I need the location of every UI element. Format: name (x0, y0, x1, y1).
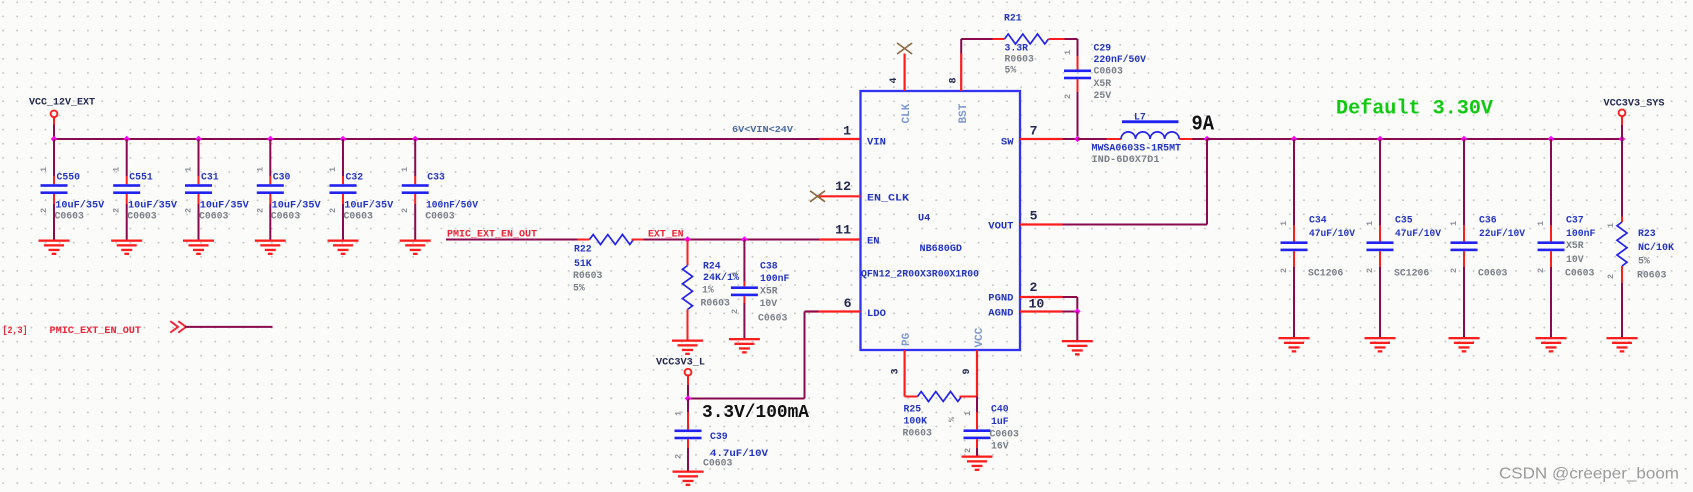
wire output down to VOUT (1206, 139, 1208, 225)
svg-text:PMIC_EXT_EN_OUT: PMIC_EXT_EN_OUT (447, 229, 537, 240)
junction C34 on output bus (1291, 136, 1298, 143)
C38 pin 1 stub (743, 281, 745, 286)
svg-text:VCC3V3_SYS: VCC3V3_SYS (1604, 99, 1665, 110)
capacitor C40 (964, 429, 991, 439)
svg-text:4: 4 (889, 77, 900, 83)
svg-text:PMIC_EXT_EN_OUT: PMIC_EXT_EN_OUT (50, 325, 142, 336)
junction C32 on VIN bus (340, 136, 347, 143)
C34 pin 1 stub (1293, 226, 1295, 242)
wire BST up (960, 39, 962, 54)
junction EXT_EN / R24 (684, 236, 691, 243)
svg-text:C550: C550 (57, 172, 81, 183)
svg-text:EXT_EN: EXT_EN (648, 229, 684, 240)
wire C33 to ground (414, 204, 416, 240)
junction PGND/AGND (1074, 308, 1081, 315)
capacitor C34 (1281, 241, 1308, 251)
svg-text:VCC: VCC (974, 327, 986, 347)
U4 pin 6 stub (805, 310, 861, 312)
svg-text:2: 2 (184, 208, 194, 213)
ground under C34 (1279, 337, 1310, 353)
C30 pin 2 stub (269, 194, 271, 204)
op-amp/regulator U4 NB680GD chip body (861, 91, 1021, 350)
ground under C37 (1536, 337, 1567, 353)
svg-text:QFN12_2R00X3R00X1R00: QFN12_2R00X3R00X1R00 (861, 269, 979, 280)
svg-text:2: 2 (1536, 268, 1546, 273)
U4 pin 1 stub (819, 138, 861, 140)
svg-text:NC/10K: NC/10K (1638, 242, 1674, 253)
R23 pin 2 stub (1621, 266, 1623, 283)
power port VCC3V3_L (685, 369, 692, 376)
svg-text:IND-6D6X7D1: IND-6D6X7D1 (1092, 154, 1160, 165)
svg-text:C0603: C0603 (55, 211, 85, 222)
svg-text:C39: C39 (710, 431, 728, 442)
svg-text:C0603: C0603 (344, 211, 374, 222)
svg-text:C32: C32 (346, 172, 364, 183)
svg-text:C0603: C0603 (271, 211, 301, 222)
svg-text:C38: C38 (760, 261, 778, 272)
resistor R22 (578, 235, 644, 245)
svg-text:2: 2 (1365, 268, 1375, 273)
C39 pin 2 stub (687, 439, 689, 448)
svg-text:U4: U4 (918, 214, 930, 225)
svg-text:C0603: C0603 (127, 211, 157, 222)
svg-text:3: 3 (891, 368, 902, 374)
wire to C39 (687, 399, 689, 413)
svg-text:5: 5 (1030, 209, 1038, 224)
svg-text:2: 2 (328, 208, 338, 213)
svg-text:C29: C29 (1094, 43, 1112, 54)
wire C40 to ground (976, 448, 978, 456)
ground under C33 (400, 240, 431, 256)
capacitor C550 (41, 184, 68, 194)
wire C551 to ground (126, 204, 128, 240)
wire C32 to ground (342, 204, 344, 240)
capacitor C39 (675, 430, 702, 440)
U4 pin 3 stub (903, 350, 905, 397)
svg-text:C0603: C0603 (1094, 66, 1124, 77)
wire SW to L7 (1078, 138, 1107, 140)
svg-text:C0603: C0603 (199, 211, 229, 222)
svg-text:1: 1 (1449, 221, 1459, 226)
svg-text:PG: PG (901, 332, 913, 346)
junction EXT_EN / C38 (741, 236, 748, 243)
svg-text:2: 2 (1063, 94, 1073, 99)
wire EXT_EN to U4 pin 11 (644, 239, 820, 241)
svg-text:9: 9 (962, 368, 973, 374)
svg-text:C31: C31 (201, 172, 219, 183)
svg-text:R22: R22 (574, 244, 592, 255)
wire bus to C35 (1379, 139, 1381, 226)
wire bus to C36 (1463, 139, 1465, 226)
svg-text:C0603: C0603 (1478, 268, 1508, 279)
svg-text:2: 2 (255, 208, 265, 213)
wire C35 to ground (1379, 267, 1381, 337)
wire PGND down (1076, 297, 1078, 312)
ground under R23 (1607, 337, 1638, 353)
C37 pin 2 stub (1550, 251, 1552, 267)
svg-text:R21: R21 (1004, 13, 1022, 24)
svg-text:7: 7 (1030, 124, 1038, 139)
svg-text:%: % (947, 416, 957, 422)
svg-text:5%: 5% (1005, 65, 1017, 76)
C31 pin 2 stub (198, 194, 200, 204)
svg-text:SC1206: SC1206 (1308, 268, 1343, 279)
wire bus to C32 (342, 139, 344, 176)
svg-text:R0603: R0603 (1637, 270, 1667, 281)
junction L7 output / VOUT (1204, 136, 1211, 143)
junction C35 on output bus (1377, 136, 1384, 143)
svg-text:R0603: R0603 (903, 428, 933, 439)
C40 pin 2 stub (976, 439, 978, 448)
C550 pin 1 stub (53, 176, 55, 184)
svg-text:9A: 9A (1192, 114, 1215, 137)
svg-text:51K: 51K (574, 258, 592, 269)
svg-text:C0603: C0603 (703, 458, 733, 469)
svg-text:2: 2 (674, 454, 684, 459)
svg-text:11: 11 (835, 223, 851, 238)
C29 pin 2 stub (1077, 79, 1079, 92)
wire C550 to ground (53, 204, 55, 240)
junction R23 / VCC3V3_SYS port (1619, 136, 1626, 143)
svg-text:1: 1 (328, 167, 338, 172)
svg-text:47uF/10V: 47uF/10V (1395, 228, 1441, 239)
ground under PGND/AGND (1062, 340, 1093, 356)
no-connect X on pin 4 (897, 43, 912, 54)
svg-text:1: 1 (255, 167, 265, 172)
svg-text:5%: 5% (1638, 256, 1650, 267)
svg-text:C0603: C0603 (425, 211, 455, 222)
wire bus to C30 (269, 139, 271, 176)
C31 pin 1 stub (198, 176, 200, 184)
svg-text:1: 1 (1063, 50, 1073, 55)
resistor R25 (905, 392, 977, 402)
wire C31 to ground (198, 204, 200, 240)
svg-text:16V: 16V (991, 441, 1009, 452)
svg-text:1: 1 (1606, 223, 1616, 228)
svg-text:1%: 1% (702, 285, 714, 296)
wire bus to C34 (1293, 139, 1295, 226)
wire C29 to SW net (1077, 92, 1079, 139)
svg-text:1: 1 (730, 271, 740, 276)
wire bus to C37 (1550, 139, 1552, 226)
ground under C30 (255, 240, 286, 256)
wire C36 to ground (1463, 267, 1465, 337)
capacitor C32 (330, 184, 357, 194)
svg-text:10V: 10V (1566, 254, 1584, 265)
capacitor C35 (1367, 241, 1394, 251)
svg-text:C40: C40 (991, 404, 1009, 415)
wire VCC to C40 (976, 397, 978, 413)
C33 pin 1 stub (414, 176, 416, 184)
svg-text:C0603: C0603 (990, 429, 1020, 440)
junction C31 on VIN bus (195, 136, 202, 143)
svg-text:EN: EN (867, 236, 880, 248)
capacitor C38 (731, 286, 758, 296)
svg-text:NB680GD: NB680GD (920, 243, 963, 254)
C32 pin 2 stub (342, 194, 344, 204)
svg-text:1: 1 (400, 167, 410, 172)
wire VCC3V3_SYS bus (1207, 138, 1622, 140)
svg-text:1: 1 (1365, 221, 1375, 226)
wire C37 to ground (1550, 267, 1552, 337)
svg-text:Default 3.30V: Default 3.30V (1336, 98, 1493, 121)
svg-text:CSDN @creeper_boom: CSDN @creeper_boom (1499, 466, 1679, 483)
svg-text:AGND: AGND (988, 308, 1013, 320)
svg-text:C551: C551 (129, 172, 153, 183)
L7 pin 1 stub (1107, 138, 1122, 140)
svg-text:VCC3V3_L: VCC3V3_L (656, 358, 705, 369)
C35 pin 1 stub (1379, 226, 1381, 242)
junction C37 on output bus (1548, 136, 1555, 143)
svg-text:100nF/50V: 100nF/50V (426, 200, 478, 211)
power port VCC3V3_SYS (1619, 109, 1626, 116)
ground under C40 (962, 456, 993, 472)
wire port stub (687, 376, 689, 385)
svg-text:10uF/35V: 10uF/35V (55, 200, 104, 211)
svg-text:6V<VIN<24V: 6V<VIN<24V (732, 124, 794, 135)
svg-text:C33: C33 (427, 172, 445, 183)
svg-text:R0603: R0603 (573, 270, 603, 281)
svg-text:3.3R: 3.3R (1005, 43, 1029, 54)
wire VOUT horizontal (1063, 224, 1208, 226)
wire R21 to C29 (1065, 38, 1078, 40)
wire PGND (1063, 296, 1078, 298)
capacitor C551 (113, 184, 140, 194)
svg-text:L7: L7 (1134, 112, 1146, 123)
svg-text:C36: C36 (1479, 215, 1497, 226)
wire bus to C31 (198, 139, 200, 176)
svg-text:SC1206: SC1206 (1394, 268, 1429, 279)
svg-text:2: 2 (1030, 280, 1038, 295)
wire L7 to output (1193, 138, 1208, 140)
wire VIN bus (54, 138, 819, 140)
no-connect X on pin 12 (810, 191, 825, 202)
wire port to bus (1621, 125, 1623, 139)
svg-text:X5R: X5R (1094, 78, 1112, 89)
U4 pin 11 stub (819, 238, 861, 240)
U4 pin 9 stub (976, 350, 978, 397)
svg-text:3.3V/100mA: 3.3V/100mA (702, 403, 809, 423)
svg-text:10V: 10V (760, 298, 778, 309)
C33 pin 2 stub (414, 194, 416, 204)
svg-text:C0603: C0603 (758, 313, 788, 324)
svg-text:2: 2 (1449, 268, 1459, 273)
wire port stub (53, 117, 55, 124)
C34 pin 2 stub (1293, 251, 1295, 267)
svg-text:EN_CLK: EN_CLK (867, 193, 910, 205)
svg-text:LDO: LDO (867, 308, 886, 320)
svg-text:C37: C37 (1566, 215, 1584, 226)
inductor L7 (1121, 120, 1179, 139)
ground under R24 (672, 340, 703, 356)
C30 pin 1 stub (269, 176, 271, 184)
wire port stub (1621, 116, 1623, 125)
C39 pin 1 stub (687, 412, 689, 430)
U4 pin 7 stub (1020, 138, 1063, 140)
svg-text:[2,3]: [2,3] (3, 325, 28, 336)
capacitor C33 (402, 184, 429, 194)
svg-text:C0603: C0603 (1565, 268, 1595, 279)
C550 pin 2 stub (53, 194, 55, 204)
junction C551 on VIN bus (123, 136, 130, 143)
svg-text:1: 1 (674, 411, 684, 416)
wire SW (1063, 138, 1078, 140)
junction VCC3V3_L / C39 (685, 395, 692, 402)
wire LDO to VCC3V3_L (688, 398, 805, 400)
svg-text:2: 2 (400, 208, 410, 213)
svg-text:C34: C34 (1309, 215, 1327, 226)
svg-text:100nF: 100nF (760, 273, 790, 284)
ground under C551 (111, 240, 142, 256)
U4 pin 8 stub (960, 54, 962, 92)
wire PMIC_EXT_EN_OUT to R22 (446, 239, 578, 241)
wire BST to R21 (961, 38, 992, 40)
svg-text:12: 12 (835, 179, 851, 194)
svg-text:1: 1 (184, 167, 194, 172)
wire down to C29 (1077, 39, 1079, 56)
wire AGND (1063, 311, 1078, 313)
svg-text:10uF/35V: 10uF/35V (344, 200, 393, 211)
R24 pin 2 stub (687, 310, 689, 340)
svg-text:R0603: R0603 (1005, 54, 1035, 65)
C551 pin 1 stub (126, 176, 128, 184)
resistor R21 (993, 34, 1065, 44)
svg-text:PGND: PGND (988, 293, 1013, 305)
junction C30 on VIN bus (267, 136, 274, 143)
svg-text:1: 1 (39, 167, 49, 172)
power port VCC_12V_EXT (51, 110, 58, 117)
ground under C550 (39, 240, 70, 256)
C37 pin 1 stub (1550, 226, 1552, 242)
ground under C39 (673, 471, 704, 487)
svg-text:2: 2 (112, 208, 122, 213)
junction C36 on output bus (1461, 136, 1468, 143)
R23 pin 1 stub (1621, 217, 1623, 223)
svg-text:2: 2 (39, 208, 49, 213)
C29 pin 1 stub (1077, 56, 1079, 70)
junction C33 on VIN bus (412, 136, 419, 143)
C38 pin 2 stub (743, 296, 745, 303)
svg-text:220nF/50V: 220nF/50V (1094, 54, 1147, 65)
C32 pin 1 stub (342, 176, 344, 184)
svg-text:10uF/35V: 10uF/35V (272, 200, 321, 211)
capacitor C29 (1064, 70, 1091, 80)
C551 pin 2 stub (126, 194, 128, 204)
svg-text:2: 2 (963, 448, 973, 453)
svg-text:C30: C30 (273, 172, 291, 183)
wire port to bus (53, 125, 55, 140)
svg-text:1: 1 (843, 124, 851, 139)
wire C39 to ground (687, 448, 689, 471)
wire port to node (687, 385, 689, 399)
wire bus to C551 (126, 139, 128, 176)
U4 pin 12 stub (819, 195, 861, 197)
U4 pin 10 stub (1020, 310, 1063, 312)
C35 pin 2 stub (1379, 251, 1381, 267)
svg-text:1: 1 (1279, 221, 1289, 226)
wire LDO (805, 311, 819, 313)
junction SW / C29 (1074, 136, 1081, 143)
L7 pin 2 stub (1179, 138, 1192, 140)
svg-text:VIN: VIN (867, 137, 886, 149)
ground under C32 (328, 240, 359, 256)
wire LDO down (804, 312, 806, 399)
svg-text:X5R: X5R (1566, 240, 1584, 251)
junction C550 on VIN bus (51, 136, 58, 143)
ground under C36 (1449, 337, 1480, 353)
svg-text:CLK: CLK (901, 103, 913, 123)
wire AGND to ground (1076, 312, 1078, 341)
svg-text:R25: R25 (904, 404, 922, 415)
ground under C31 (183, 240, 214, 256)
svg-text:2: 2 (1606, 274, 1616, 279)
svg-text:5%: 5% (573, 283, 585, 294)
wire to C38 (743, 240, 745, 282)
C36 pin 2 stub (1463, 251, 1465, 267)
svg-text:C35: C35 (1395, 215, 1413, 226)
svg-text:6: 6 (844, 296, 852, 311)
svg-text:25V: 25V (1094, 90, 1112, 101)
svg-text:100K: 100K (904, 416, 928, 427)
ground under C35 (1365, 337, 1396, 353)
svg-text:VOUT: VOUT (988, 221, 1013, 233)
svg-text:2: 2 (730, 309, 740, 314)
capacitor C31 (185, 184, 212, 194)
R24 pin 1 stub (687, 240, 689, 266)
svg-text:X5R: X5R (760, 286, 778, 297)
wire off-sheet stub (185, 326, 273, 328)
svg-text:R23: R23 (1638, 228, 1656, 239)
wire C34 to ground (1293, 267, 1295, 337)
svg-text:1: 1 (112, 167, 122, 172)
resistor R24 (683, 266, 693, 310)
svg-text:1: 1 (1536, 221, 1546, 226)
svg-text:SW: SW (1001, 137, 1014, 149)
wire C38 to ground (743, 303, 745, 338)
capacitor C30 (257, 184, 284, 194)
U4 pin 2 stub (1020, 296, 1063, 298)
C36 pin 1 stub (1463, 226, 1465, 242)
U4 pin 5 stub (1020, 223, 1063, 225)
svg-text:2: 2 (1279, 268, 1289, 273)
svg-text:1uF: 1uF (991, 416, 1009, 427)
svg-text:8: 8 (949, 77, 960, 83)
svg-text:10uF/35V: 10uF/35V (128, 200, 177, 211)
svg-text:1: 1 (963, 411, 973, 416)
wire bus to R23 (1621, 139, 1623, 217)
ground under C38 (729, 338, 760, 354)
off-sheet connector chevron (170, 321, 186, 332)
U4 pin 4 stub (903, 54, 905, 92)
wire bus to C33 (414, 139, 416, 176)
svg-text:R0603: R0603 (701, 298, 731, 309)
svg-text:VCC_12V_EXT: VCC_12V_EXT (29, 98, 95, 109)
C40 pin 1 stub (976, 412, 978, 429)
svg-text:R24: R24 (703, 261, 721, 272)
svg-text:10uF/35V: 10uF/35V (200, 200, 249, 211)
svg-text:47uF/10V: 47uF/10V (1309, 228, 1355, 239)
resistor R23 (1617, 222, 1627, 266)
wire R23 to ground (1621, 283, 1623, 337)
svg-text:10: 10 (1029, 297, 1045, 312)
svg-text:MWSA0603S-1R5MT: MWSA0603S-1R5MT (1092, 143, 1182, 154)
capacitor C36 (1451, 241, 1478, 251)
svg-text:22uF/10V: 22uF/10V (1479, 228, 1525, 239)
wire C30 to ground (269, 204, 271, 240)
wire bus to C550 (53, 139, 55, 176)
svg-text:100nF: 100nF (1566, 228, 1596, 239)
capacitor C37 (1538, 241, 1565, 251)
